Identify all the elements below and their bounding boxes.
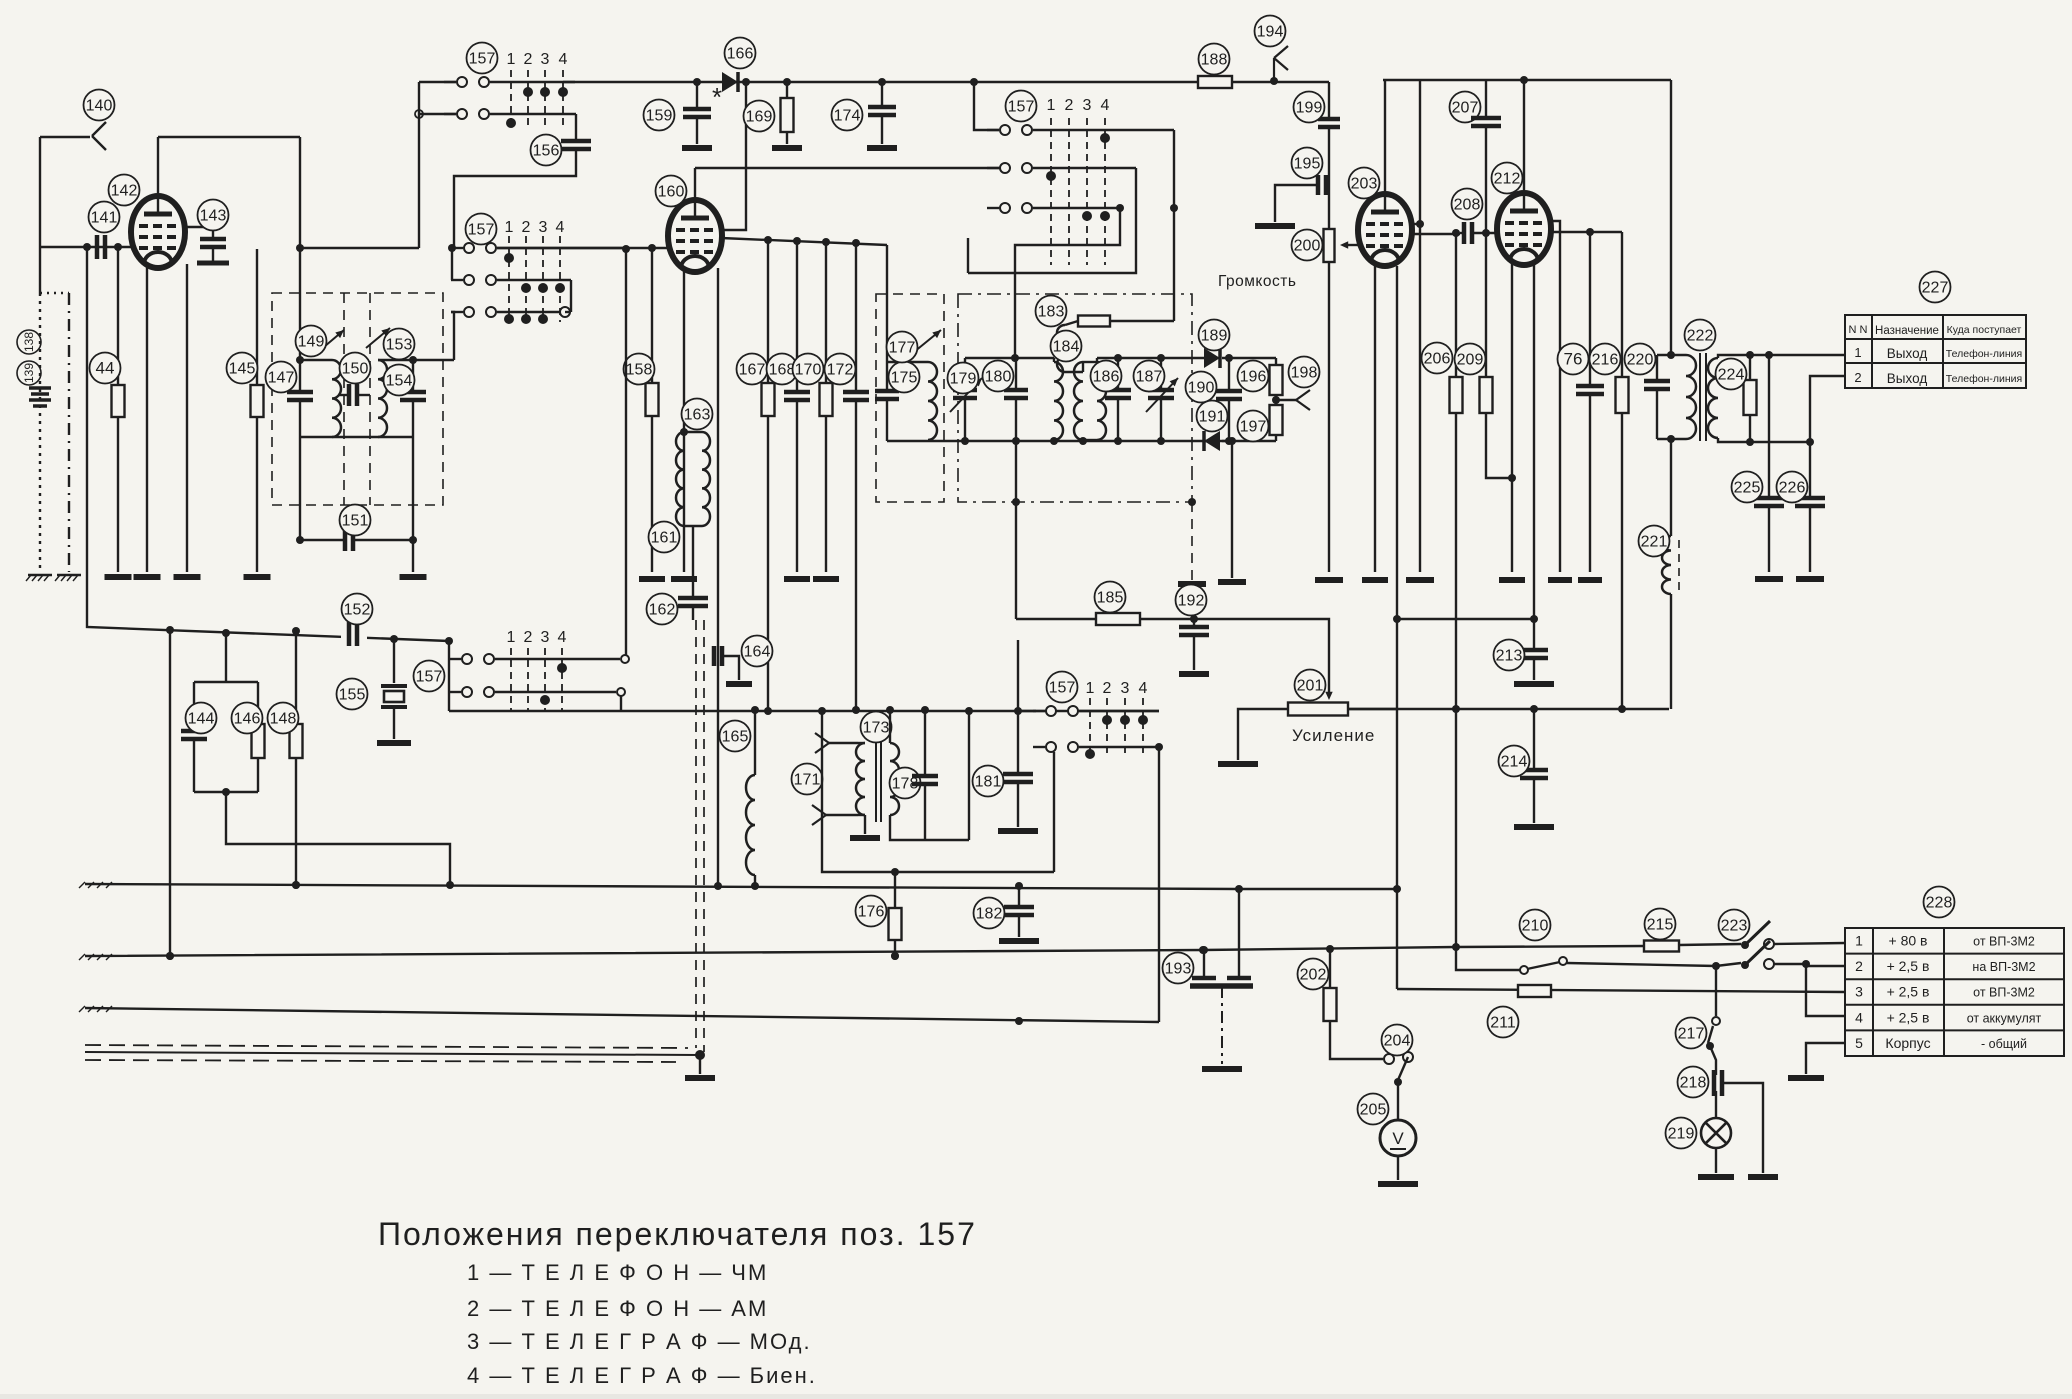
wire screen riser 166-160 [721,82,746,230]
svg-text:211: 211 [1490,1015,1516,1032]
svg-text:167: 167 [739,362,766,379]
capacitor 220 [1656,355,1658,381]
wire tank feed drop [299,137,301,360]
svg-text:150: 150 [342,361,369,378]
svg-text:155: 155 [339,687,366,704]
wire 201 right [1348,708,1397,710]
diode 191 [1204,431,1220,451]
svg-text:171: 171 [794,772,821,789]
resistor 206 [1455,233,1457,377]
capacitor 164 [714,646,722,666]
wire detector top bus [1097,357,1204,359]
svg-text:142: 142 [111,183,138,200]
wire 206-column drop [1455,709,1457,947]
capacitor 182 [1018,885,1020,907]
svg-text:174: 174 [834,108,861,125]
wire grid bus 142 [40,246,131,248]
capacitor 76 [1589,232,1591,386]
shield box C (dash-dot) [958,294,1192,502]
svg-text:4: 4 [559,51,568,68]
capacitor 151 [300,437,345,540]
capacitor 141 [97,235,105,259]
wire switch c left column [448,641,450,711]
wire rail B to switch 223 [1679,944,1741,945]
svg-text:3: 3 [1855,984,1863,1000]
svg-text:183: 183 [1038,304,1065,321]
resistor 176 [894,872,896,908]
svg-text:165: 165 [722,729,749,746]
svg-text:153: 153 [386,337,413,354]
svg-text:- общий: - общий [1981,1037,2027,1051]
wire row5 to ground [1806,1043,1845,1074]
wire grid bus to tube 160 [497,247,668,249]
svg-text:Громкость: Громкость [1218,273,1296,290]
wire 203 grid out [1411,233,1460,235]
svg-text:189: 189 [1201,328,1228,345]
switch 223 lower pole [1741,961,1749,969]
wire switch e row2 drop [1015,208,1120,358]
svg-text:225: 225 [1734,480,1761,497]
wire H1 to switch e [974,82,999,130]
wire 190 column to ground [1231,441,1233,578]
switch 157b contacts [451,247,463,249]
svg-text:162: 162 [649,602,676,619]
svg-text:4 — Т Е Л Е Г Р А Ф — Биен.: 4 — Т Е Л Е Г Р А Ф — Биен. [467,1363,817,1388]
label 139 (rotated) [17,361,41,385]
label 157 (e) [1006,91,1037,122]
wire to voltmeter [1397,1082,1399,1120]
svg-text:3: 3 [541,629,550,646]
capacitor 213 [1533,619,1535,650]
svg-text:140: 140 [86,98,113,115]
wire 193 left riser [1203,950,1205,978]
inductor 171 primary [856,743,865,815]
wire 160 screen bus H3 [721,238,887,245]
wire 144/146 bottom [194,791,258,793]
svg-text:Телефон-линия: Телефон-линия [1946,348,2022,360]
svg-text:164: 164 [744,644,771,661]
svg-text:2 — Т Е Л Е Ф О Н — АМ: 2 — Т Е Л Е Ф О Н — АМ [467,1296,768,1321]
svg-text:148: 148 [270,711,297,728]
switch 157d selected-position dots [1102,715,1112,725]
svg-text:2: 2 [524,629,533,646]
switch 157a selected-position dots [523,87,533,97]
label 157 (d) [1047,672,1078,703]
wire top bus to AF [1328,82,1330,119]
wire output tank top [1670,80,1672,355]
wire to table row2 [1810,376,1845,442]
svg-text:от аккумулят: от аккумулят [1967,1011,2042,1025]
svg-text:2: 2 [1103,680,1112,697]
svg-text:163: 163 [684,407,711,424]
wire 201 left to ground [1238,709,1288,760]
table 227 [1845,315,2026,388]
svg-text:227: 227 [1922,280,1949,297]
resistor 170 [825,242,827,383]
wire lamp ground [1715,1148,1717,1173]
tube 203 [1358,194,1412,266]
potentiometer 200 [1324,229,1335,262]
inductor 175 [887,361,928,363]
svg-text:226: 226 [1779,480,1806,497]
svg-text:147: 147 [268,370,295,387]
wire secondary bottom [1718,438,1810,442]
svg-text:76: 76 [1564,350,1583,369]
capacitor 218 [1714,1070,1722,1096]
capacitor 180a [1015,358,1017,390]
capacitor 147 [299,360,301,392]
transformer core 173 [875,738,877,822]
switch 157e selected-position dots [1046,171,1056,181]
trimmer arrow 177 [914,330,941,352]
svg-text:175: 175 [891,370,918,387]
svg-text:190: 190 [1188,380,1215,397]
node shield join [695,1050,705,1060]
shield dashed pair [695,620,697,1048]
switch 157d position ticks [1089,698,1091,758]
switch 157e position ticks [1050,118,1052,265]
svg-text:3: 3 [1121,680,1130,697]
wire row3 bus [1397,989,1845,992]
wire 212 grid2 bus [1548,231,1622,233]
svg-text:160: 160 [658,184,685,201]
wire tank B top [378,359,413,361]
svg-text:172: 172 [827,362,854,379]
wire 212 cathode right / to 213 [1533,261,1535,619]
wire switch b row3 left drop [451,312,454,360]
shield edge ground [1191,502,1193,580]
wire after diode [1222,357,1276,359]
svg-text:1: 1 [1854,345,1861,360]
node switch a left [415,110,423,118]
capacitor 192 [1193,619,1195,627]
ground under 142 second pin [186,264,188,572]
svg-text:4: 4 [558,629,567,646]
svg-text:201: 201 [1297,678,1324,695]
svg-text:205: 205 [1360,1102,1387,1119]
capacitor 225 [1768,355,1770,498]
wire tank bottoms [300,436,413,438]
svg-text:186: 186 [1093,369,1120,386]
wire 185 run [1016,618,1194,620]
node rail B junctions [166,952,174,960]
svg-text:Усиление: Усиление [1292,726,1375,745]
wire 212 screen left-top [1548,221,1560,572]
wire 212 anode riser [1523,80,1525,193]
wire 203 right column [1419,80,1421,572]
key input chevrons [815,733,829,753]
svg-text:4: 4 [556,219,565,236]
svg-text:179: 179 [950,371,977,388]
wire row2 into table [1806,965,1845,967]
svg-text:1: 1 [507,629,516,646]
svg-text:146: 146 [234,711,261,728]
wire antenna feed [40,136,90,138]
transformer 222 primary [1686,355,1696,439]
svg-text:209: 209 [1457,352,1484,369]
inductor 180b [1053,358,1055,362]
wire tank B to ground [412,437,414,572]
svg-text:157: 157 [1008,99,1035,116]
inductor 163 [676,432,684,526]
capacitor 144 [225,633,227,682]
svg-text:161: 161 [651,530,678,547]
ground under tank [400,574,427,580]
wire switch b left links [451,248,453,280]
switch 157c contacts [449,658,461,660]
svg-text:152: 152 [344,602,371,619]
svg-text:181: 181 [975,774,1002,791]
svg-text:*: * [712,82,722,112]
switch 204 [1384,1054,1394,1064]
wiper feed from detector [1194,619,1329,694]
wire det output run [1015,441,1017,619]
svg-text:141: 141 [91,210,118,227]
label 161 [649,522,680,553]
switch 157e contacts [987,129,999,131]
wire 160 cathode left [683,268,685,572]
svg-text:Выход: Выход [1887,346,1928,361]
wire switch b row1 to c row1 [625,249,627,655]
switch 217 [1715,966,1717,1016]
inductor 186 transformer [1082,362,1084,372]
svg-text:4: 4 [1101,97,1110,114]
svg-text:2: 2 [524,51,533,68]
svg-text:166: 166 [727,46,754,63]
wire left column of switch a [418,82,420,248]
svg-text:219: 219 [1668,1126,1695,1143]
svg-text:159: 159 [646,108,673,125]
svg-text:193: 193 [1165,961,1192,978]
contact circle row3 right [560,307,570,317]
wire switch d drop [1158,747,1160,1022]
node rail A junctions [292,881,300,889]
svg-text:154: 154 [386,373,413,390]
diode 166 [722,72,738,92]
svg-text:+ 2,5 в: + 2,5 в [1887,1009,1930,1025]
inductor 149 (tuned) [332,360,341,437]
svg-text:173: 173 [863,720,890,737]
svg-text:207: 207 [1452,100,1479,117]
lamp 219 [1701,1118,1731,1148]
svg-text:5: 5 [1855,1035,1863,1051]
capacitor 150 coupling [338,394,349,396]
resistor 44 [117,247,119,385]
svg-text:213: 213 [1496,648,1523,665]
resistor 169 [786,82,788,98]
wire switch d left column [1017,640,1019,711]
svg-text:198: 198 [1291,365,1318,382]
wire bottom bus of switch c [449,710,1159,712]
svg-text:от ВП-3М2: от ВП-3М2 [1973,935,2035,949]
capacitor 226 [1809,442,1811,498]
svg-text:158: 158 [626,362,653,379]
svg-text:143: 143 [200,208,227,225]
wire switch e row0 drop [1173,130,1175,321]
node on grid bus [83,243,91,251]
switch 157b selected-position dots [504,253,514,263]
wire 160 cathode right [717,268,719,886]
svg-text:176: 176 [858,904,885,921]
wire rail A [85,884,1397,889]
switch 157a position ticks [510,70,512,127]
svg-text:195: 195 [1294,156,1321,173]
variable capacitor 187 [1160,358,1162,390]
svg-text:224: 224 [1718,367,1745,384]
capacitor 178 tuning [924,711,926,776]
svg-text:188: 188 [1201,52,1228,69]
capacitor 143 [184,227,213,239]
table 228 [1845,928,2064,1056]
switch 157b position ticks [508,236,510,322]
node rail C junction [1015,1017,1023,1025]
svg-text:4: 4 [1139,680,1148,697]
telescopic antenna 138 symbol [29,386,51,390]
wire 193 right riser [1238,889,1240,978]
wire to switch column [300,247,419,249]
svg-text:3: 3 [539,219,548,236]
node switch d right [1155,743,1163,751]
label 157 (c) [414,661,445,692]
svg-text:144: 144 [188,711,215,728]
svg-text:220: 220 [1627,352,1654,369]
svg-text:168: 168 [769,362,796,379]
svg-text:208: 208 [1454,197,1481,214]
wire 203 anode loop [1384,80,1386,194]
node tank A top [296,356,304,364]
svg-text:204: 204 [1384,1033,1411,1050]
svg-text:228: 228 [1926,895,1953,912]
resistor 196 [1275,358,1277,365]
svg-text:199: 199 [1296,100,1323,117]
svg-text:от ВП-3М2: от ВП-3М2 [1973,986,2035,1000]
capacitor 208 [1464,222,1472,244]
shield rails (dashed) [85,1045,688,1048]
wire 203 screen to column [1411,223,1420,225]
switch 157d contacts [1033,710,1045,712]
capacitor 193 (dual) [1192,976,1216,981]
label 138 (rotated) [17,330,41,354]
wire detector bottom bus [928,440,1276,442]
wiper arrow 200 [1343,244,1359,246]
node coil 163 top [680,428,688,436]
voltmeter 205 [1380,1120,1416,1156]
svg-text:3: 3 [1083,97,1092,114]
svg-text:206: 206 [1424,351,1451,368]
svg-text:187: 187 [1136,369,1163,386]
wire c row2 drop [620,696,622,711]
capacitor 156 [575,114,577,141]
chassis ground left [26,575,52,581]
svg-text:170: 170 [795,362,822,379]
wire tank top [1657,354,1686,356]
svg-text:212: 212 [1494,171,1521,188]
ground right of lamp [1748,1174,1778,1180]
wire anode bus to switch e [695,167,1010,169]
svg-text:218: 218 [1680,1075,1707,1092]
contact end circles switch c [621,655,629,663]
variable capacitor 179 [964,358,966,390]
inductor 178 secondary [889,711,891,743]
wire 212 cathode left [1511,261,1513,572]
svg-text:2: 2 [1855,958,1863,974]
switch 223 upper pole [1741,941,1749,949]
svg-text:185: 185 [1097,590,1124,607]
node bottom bus [764,707,772,715]
wire tank A top [300,359,332,361]
quartz 155 [393,639,395,683]
wire 193 shield stem [1221,986,1223,1064]
svg-text:4: 4 [1855,1009,1863,1025]
svg-text:на ВП-3М2: на ВП-3М2 [1972,960,2035,974]
svg-text:44: 44 [96,359,115,378]
wire row2 with switch [1461,969,1520,971]
label 210 [1520,910,1551,941]
svg-text:192: 192 [1178,593,1205,610]
switch 157a contacts [444,81,456,83]
capacitor 152 [341,618,367,644]
wire 176 feed [822,711,1054,872]
capacitor in box B [886,362,888,391]
wire secondary right side [968,711,970,840]
wire to coil 221 [1670,439,1672,536]
label 140 [84,90,115,121]
capacitor 214 [1533,709,1535,770]
wire 142 anode riser [157,137,159,196]
antenna 194 [1274,46,1288,81]
rail A end ticks [79,882,85,888]
tube 212 [1497,193,1551,265]
svg-text:157: 157 [469,51,496,68]
svg-text:+ 2,5 в: + 2,5 в [1887,958,1930,974]
svg-text:+ 80 в: + 80 в [1889,933,1928,949]
switch 157c selected-position dots [557,663,567,673]
wire 203 cathode right long [1396,266,1398,989]
svg-text:222: 222 [1687,328,1714,345]
wire anode top run [158,136,300,138]
svg-text:+ 2,5 в: + 2,5 в [1887,984,1930,1000]
svg-text:Выход: Выход [1887,371,1928,386]
svg-text:1 — Т Е Л Е Ф О Н — ЧМ: 1 — Т Е Л Е Ф О Н — ЧМ [467,1260,768,1285]
svg-text:2: 2 [1065,97,1074,114]
wire box B bottom [887,440,928,442]
capacitor 172 [855,243,857,392]
fuse 215 [1644,941,1679,952]
svg-text:Назначение: Назначение [1875,325,1939,337]
svg-text:169: 169 [746,109,773,126]
resistor 185 [1096,613,1140,625]
svg-text:2: 2 [1854,370,1861,385]
resistor 145 [256,249,258,385]
svg-text:1: 1 [1047,97,1056,114]
label 227 [1920,272,1951,303]
svg-text:221: 221 [1641,534,1668,551]
svg-text:182: 182 [976,906,1003,923]
resistor 167 [767,240,769,383]
wire 163 to cap 162 [692,526,694,598]
inductor 153 (tuned) [378,360,387,437]
svg-text:2: 2 [522,219,531,236]
svg-text:177: 177 [889,340,916,357]
svg-text:216: 216 [1592,352,1619,369]
capacitor 168 [796,241,798,392]
shield box B (dashed) [876,294,944,502]
shield box left (dash-dot) [68,293,70,572]
capacitor 190 [1228,358,1230,391]
wire 160 anode riser [694,168,696,200]
wire rail C [85,1008,1159,1022]
wire W bus [1348,708,1669,710]
